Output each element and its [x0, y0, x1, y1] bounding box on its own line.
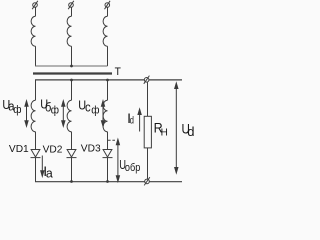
svg-text:VD2: VD2 — [43, 144, 63, 155]
svg-text:Н: Н — [161, 127, 168, 138]
svg-text:ф: ф — [51, 104, 60, 117]
svg-text:ф: ф — [13, 104, 22, 117]
svg-text:обр: обр — [125, 161, 141, 174]
svg-text:d: d — [187, 124, 194, 139]
svg-text:VD1: VD1 — [9, 144, 29, 155]
svg-text:с: с — [85, 100, 91, 115]
svg-text:а: а — [46, 166, 54, 180]
svg-text:VD3: VD3 — [81, 143, 101, 154]
svg-text:T: T — [115, 66, 122, 78]
svg-text:ф: ф — [91, 104, 100, 117]
svg-text:d: d — [130, 114, 134, 125]
